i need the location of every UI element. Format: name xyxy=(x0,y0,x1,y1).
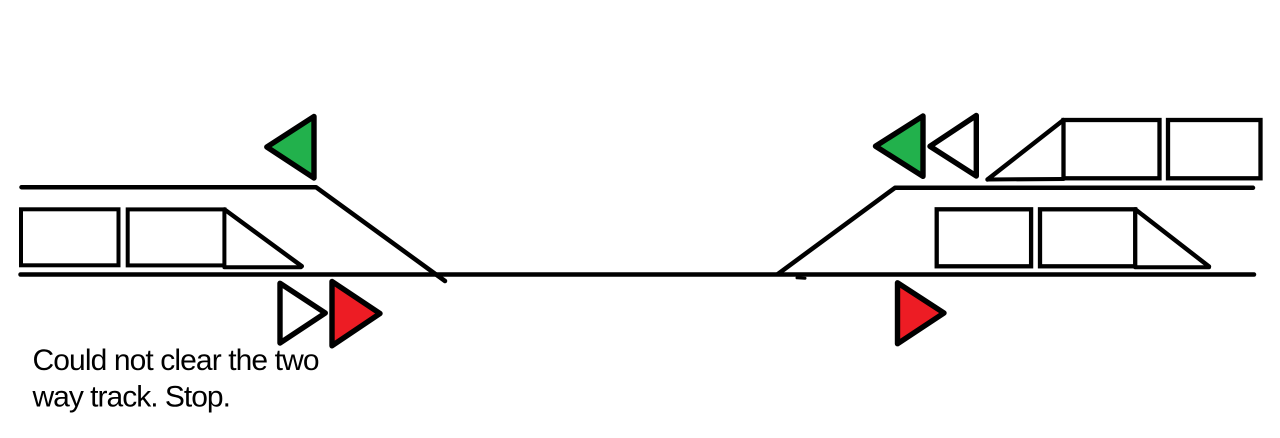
svg-text:way track. Stop.: way track. Stop. xyxy=(32,381,230,414)
svg-text:Could not clear the two: Could not clear the two xyxy=(33,344,319,377)
